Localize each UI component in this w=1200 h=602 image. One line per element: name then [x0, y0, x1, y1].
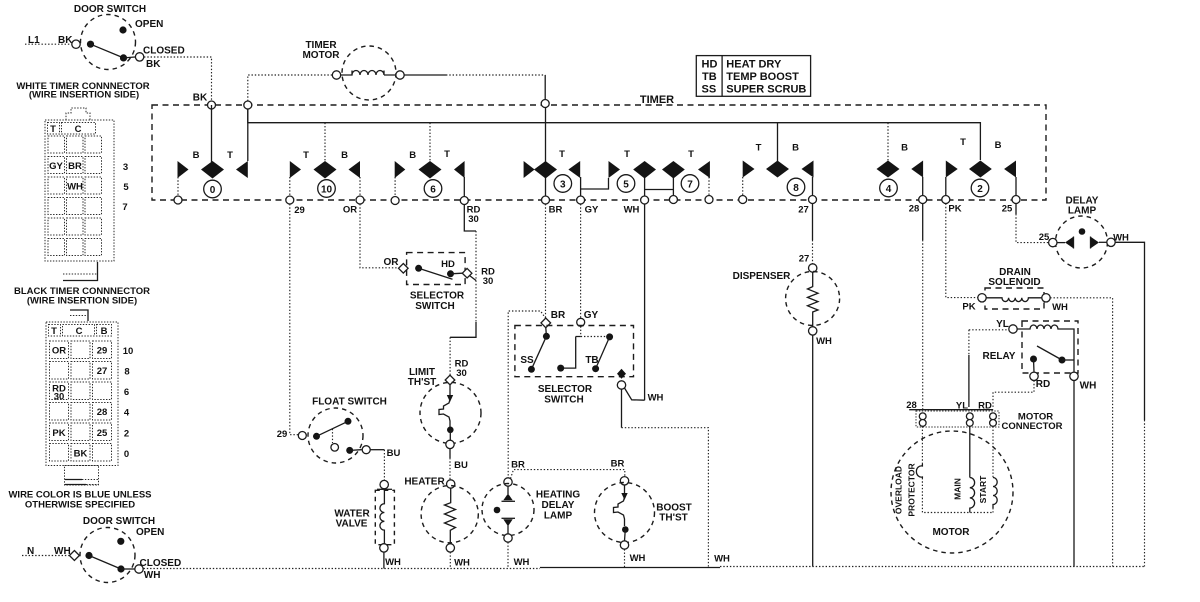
wire blade to terminal	[121, 568, 135, 570]
wire 28 from timer	[922, 204, 924, 241]
svg-text:SS: SS	[702, 84, 717, 96]
terminal GY	[577, 196, 585, 204]
terminal top	[809, 264, 817, 272]
svg-text:10: 10	[123, 346, 134, 357]
relay blade	[1037, 346, 1062, 360]
cam 8 wires	[777, 123, 779, 161]
svg-text:HD: HD	[441, 259, 455, 270]
svg-text:MOTOR: MOTOR	[302, 50, 340, 61]
cam 0 left triangle	[178, 161, 189, 178]
svg-text:SELECTOR: SELECTOR	[410, 291, 465, 302]
svg-text:3: 3	[123, 162, 128, 173]
upper contact dot	[345, 418, 352, 425]
cam 4 circle	[880, 179, 898, 197]
thermostat element	[449, 385, 451, 396]
svg-text:B: B	[995, 140, 1002, 151]
svg-text:MAIN: MAIN	[953, 478, 963, 500]
node timer motor feed	[541, 100, 549, 108]
terminal cam7 right	[705, 196, 713, 204]
wire RD to motor connector	[993, 381, 1034, 408]
header cell C	[62, 123, 96, 135]
closed contact dot	[120, 54, 127, 61]
svg-text:30: 30	[54, 392, 65, 403]
switch blade	[89, 556, 121, 570]
START winding	[993, 478, 997, 509]
svg-text:5: 5	[123, 182, 129, 193]
float switch dashed circle	[308, 408, 363, 463]
TB feed lines	[561, 337, 581, 369]
svg-text:TEMP BOOST: TEMP BOOST	[726, 71, 799, 83]
svg-text:30: 30	[468, 214, 479, 225]
cam 6 wires	[395, 123, 430, 196]
terminal bottom	[504, 534, 512, 542]
wire BR branch to lamp	[508, 311, 546, 478]
terminal 28	[919, 196, 927, 204]
svg-text:B: B	[792, 143, 799, 154]
limit thst dashed circle	[420, 382, 481, 443]
pivot dot	[87, 41, 94, 48]
cam 7 diamond	[662, 161, 685, 179]
lamp left electrode	[1057, 242, 1065, 244]
svg-text:30: 30	[456, 368, 467, 379]
svg-text:BK: BK	[74, 449, 88, 460]
wire WH to bus	[812, 335, 814, 566]
svg-text:LAMP: LAMP	[544, 511, 573, 522]
wire MAIN from pin YL	[969, 426, 971, 477]
svg-text:CLOSED: CLOSED	[143, 46, 185, 57]
svg-text:PROTECTOR: PROTECTOR	[907, 463, 917, 516]
dispenser resistor	[808, 272, 819, 327]
relay dashed box	[1022, 321, 1078, 373]
terminal YL	[1009, 325, 1017, 333]
grid row 6	[48, 239, 65, 256]
svg-text:GY: GY	[49, 161, 63, 172]
svg-text:GY: GY	[584, 310, 599, 321]
cam 0 diamond	[201, 161, 224, 179]
connector outer box	[45, 120, 114, 261]
wire BR to boost	[511, 470, 625, 479]
svg-text:BR: BR	[511, 460, 525, 471]
pin 28	[919, 413, 926, 420]
node top edge right of BK	[244, 101, 252, 109]
cam 5 circle	[617, 175, 635, 193]
svg-text:HEATING: HEATING	[536, 490, 580, 501]
cam 5 left triangle	[609, 161, 621, 178]
svg-text:LAMP: LAMP	[1068, 206, 1097, 217]
svg-text:29: 29	[277, 429, 288, 440]
grid row 4 28	[50, 403, 69, 421]
svg-text:WH: WH	[816, 336, 832, 347]
svg-text:WH: WH	[1080, 381, 1097, 392]
svg-text:BU: BU	[387, 448, 401, 459]
svg-text:B: B	[901, 143, 908, 154]
grid row 3 WH	[48, 177, 65, 194]
terminal right	[1107, 238, 1115, 246]
svg-text:WH: WH	[454, 558, 470, 569]
terminal OR diamond	[399, 264, 409, 274]
terminal diamond	[445, 375, 455, 385]
svg-text:WH: WH	[648, 393, 664, 404]
svg-text:HEAT DRY: HEAT DRY	[726, 59, 782, 71]
svg-text:SELECTOR: SELECTOR	[538, 384, 593, 395]
connector bottom tab	[63, 262, 98, 281]
svg-text:8: 8	[124, 367, 129, 378]
svg-text:29: 29	[97, 346, 108, 357]
wire timer WH down	[644, 204, 646, 400]
connector bottom tab	[65, 466, 99, 486]
svg-text:T: T	[227, 150, 233, 161]
svg-text:T: T	[51, 326, 57, 337]
lamp dot	[494, 507, 501, 514]
svg-text:TH'ST: TH'ST	[408, 377, 437, 388]
svg-text:30: 30	[483, 276, 494, 287]
pivot dot	[85, 552, 92, 559]
wire 27 from timer	[812, 204, 814, 241]
pivot dot	[313, 433, 320, 440]
wire RD30 from timer	[464, 205, 476, 232]
cam 6 circle	[424, 180, 442, 198]
cam 3 circle	[554, 175, 572, 193]
svg-text:2: 2	[124, 429, 129, 440]
grid row 2 27	[50, 362, 69, 380]
svg-text:PK: PK	[962, 302, 975, 313]
svg-text:DOOR SWITCH: DOOR SWITCH	[74, 4, 146, 15]
svg-text:8: 8	[793, 183, 799, 194]
svg-text:T: T	[444, 149, 450, 160]
svg-text:TB: TB	[702, 71, 717, 83]
svg-text:B: B	[409, 150, 416, 161]
terminal top	[504, 478, 512, 486]
svg-text:DELAY: DELAY	[542, 500, 575, 511]
wire BK to timer	[144, 57, 212, 101]
heater dashed circle	[421, 486, 478, 543]
svg-text:7: 7	[687, 180, 693, 191]
wire to RD30 line	[470, 276, 477, 281]
terminal left	[978, 294, 986, 302]
cam 2 left triangle	[946, 161, 958, 178]
svg-text:0: 0	[124, 449, 129, 460]
svg-text:T: T	[960, 137, 966, 148]
svg-text:OTHERWISE SPECIFIED: OTHERWISE SPECIFIED	[25, 500, 135, 511]
terminal 25	[1012, 196, 1020, 204]
water valve coil	[380, 489, 385, 544]
grid row 1	[48, 136, 65, 153]
wire WH to right drop	[1050, 298, 1112, 567]
svg-text:WH: WH	[1052, 302, 1068, 313]
connector top tab	[70, 310, 88, 321]
terminal left	[1049, 238, 1057, 246]
terminal cam7	[669, 196, 677, 204]
terminal closed	[135, 565, 143, 573]
cam 4 wires	[887, 123, 889, 161]
wire motor to timer node	[404, 74, 446, 76]
SS blade	[531, 336, 546, 369]
svg-text:BR: BR	[611, 459, 625, 470]
terminal cam0 left	[174, 196, 182, 204]
svg-text:7: 7	[122, 202, 127, 213]
terminal top	[447, 480, 455, 488]
terminal RD30	[460, 197, 468, 205]
cam 2 wires	[946, 177, 1016, 196]
connector outer box	[46, 322, 118, 466]
heater resistor	[445, 488, 456, 544]
lamp dot	[1079, 228, 1086, 235]
TB center contact dot	[557, 365, 564, 372]
svg-text:RELAY: RELAY	[983, 351, 1016, 362]
terminal cam8 left	[739, 196, 747, 204]
svg-text:VALVE: VALVE	[336, 519, 368, 530]
svg-text:10: 10	[321, 185, 333, 196]
svg-text:HEATER: HEATER	[404, 477, 445, 488]
svg-text:PK: PK	[52, 428, 65, 439]
wire contact to terminal	[350, 449, 362, 452]
svg-text:0: 0	[210, 185, 216, 196]
terminal bottom	[446, 544, 454, 552]
svg-text:2: 2	[977, 184, 983, 195]
svg-text:MOTOR: MOTOR	[932, 527, 970, 538]
solenoid coil	[986, 298, 1042, 302]
tick	[377, 488, 392, 490]
svg-text:28: 28	[97, 407, 108, 418]
wire RD30 to limit	[450, 322, 476, 337]
svg-text:WH: WH	[144, 570, 161, 581]
wire N input	[22, 555, 69, 557]
wire neutral bottom bus	[144, 568, 541, 570]
cam 10 right triangle	[349, 161, 361, 178]
svg-text:WH: WH	[385, 557, 401, 568]
svg-text:C: C	[75, 124, 82, 135]
svg-text:OVERLOAD: OVERLOAD	[894, 466, 904, 514]
cam 10 left triangle	[290, 161, 301, 178]
timer inner bus	[248, 105, 981, 160]
cam 10 diamond	[314, 161, 337, 179]
svg-text:OPEN: OPEN	[135, 19, 163, 30]
svg-text:OR: OR	[343, 205, 357, 216]
wire WH loop to bus	[621, 389, 623, 428]
terminal 29	[286, 196, 294, 204]
wire WH to bus	[449, 552, 451, 567]
svg-text:WH: WH	[714, 554, 730, 565]
timer dashed box	[152, 105, 1046, 200]
wire OR from timer	[360, 204, 399, 268]
grid row 4	[48, 198, 65, 215]
drain solenoid dashed box	[985, 288, 1044, 309]
svg-text:TIMER: TIMER	[640, 94, 674, 106]
wire WH to bus	[624, 549, 626, 567]
cam 2 diamond	[969, 161, 992, 178]
TB blade	[596, 337, 610, 369]
terminal left	[298, 432, 306, 440]
svg-text:28: 28	[909, 204, 920, 215]
wire contact to terminal	[451, 272, 463, 275]
svg-text:T: T	[756, 143, 762, 154]
terminal bottom	[809, 327, 817, 335]
terminal WH	[1070, 372, 1078, 380]
timer motor dashed circle	[342, 46, 396, 100]
svg-text:C: C	[76, 326, 83, 337]
svg-text:B: B	[193, 150, 200, 161]
wire BR from timer	[545, 204, 547, 318]
cam 6 left triangle	[395, 161, 406, 178]
svg-text:WH: WH	[630, 553, 646, 564]
svg-text:BR: BR	[551, 310, 566, 321]
delay lamp dashed circle	[1056, 216, 1108, 268]
cam 10 circle	[318, 180, 336, 198]
pin YL	[966, 413, 973, 420]
header cell C	[63, 325, 95, 337]
closed contact dot	[117, 565, 124, 572]
svg-text:OR: OR	[384, 257, 400, 268]
svg-text:SWITCH: SWITCH	[544, 395, 583, 406]
cam 4 right triangle	[911, 161, 923, 178]
TB contact dot	[592, 365, 599, 372]
wire WH to bus	[507, 542, 509, 568]
cam 5 diamond	[633, 161, 656, 179]
float linkage	[332, 429, 334, 443]
terminal BR	[542, 196, 550, 204]
header cell B	[97, 325, 112, 337]
svg-text:BR: BR	[549, 205, 563, 216]
lower contact dot	[346, 447, 353, 454]
relay contact dot	[1030, 356, 1037, 363]
svg-text:5: 5	[623, 180, 629, 191]
door switch S1 dashed circle	[81, 15, 136, 70]
legend box	[696, 56, 810, 97]
svg-text:TH'ST: TH'ST	[659, 513, 688, 524]
lamp bottom electrode	[502, 517, 516, 519]
terminal BR diamond	[541, 318, 551, 328]
cam 6 right triangle	[454, 161, 465, 178]
grid row 3 RD30	[50, 382, 69, 400]
lamp top electrode	[507, 486, 509, 494]
svg-text:DOOR SWITCH: DOOR SWITCH	[83, 516, 155, 527]
connector top bar	[909, 409, 993, 411]
terminal WH	[641, 196, 649, 204]
cam 7 circle	[681, 175, 699, 193]
svg-text:(WIRE INSERTION SIDE): (WIRE INSERTION SIDE)	[29, 90, 139, 101]
svg-text:29: 29	[294, 205, 305, 216]
wire WH to bus	[383, 552, 385, 568]
svg-text:BK: BK	[146, 59, 161, 70]
cam 2 right triangle	[1004, 161, 1016, 178]
svg-text:27: 27	[798, 205, 809, 216]
svg-text:25: 25	[1002, 204, 1013, 215]
svg-text:27: 27	[799, 254, 810, 265]
motor connector dotted box	[916, 411, 999, 427]
wire WH down right side	[1115, 242, 1144, 420]
cam 8 right triangle	[802, 161, 814, 178]
output dot diamond	[617, 369, 626, 379]
svg-text:GY: GY	[585, 205, 599, 216]
wire BU to heater	[449, 449, 451, 458]
cam 4 diamond	[877, 161, 900, 178]
relay coil	[1017, 325, 1074, 372]
svg-text:(WIRE INSERTION SIDE): (WIRE INSERTION SIDE)	[27, 296, 137, 307]
terminal OR	[356, 196, 364, 204]
terminal diamond	[69, 551, 79, 561]
grid row 5 PK 25	[50, 423, 69, 441]
header cell T	[49, 325, 61, 337]
grid row 5	[48, 218, 65, 235]
cam 3 diamond	[534, 161, 557, 179]
svg-text:BU: BU	[454, 460, 468, 471]
svg-text:WH: WH	[67, 182, 83, 193]
wire PK from timer	[946, 204, 978, 298]
grid row 1 OR 29	[50, 341, 69, 359]
switch blade	[419, 268, 453, 279]
cam 10 wires	[290, 123, 360, 196]
svg-text:6: 6	[430, 185, 436, 196]
wire 29 from timer	[290, 204, 298, 435]
wire WH output joins timer WH	[625, 388, 645, 400]
svg-text:27: 27	[97, 366, 108, 377]
cam 2 circle	[971, 179, 989, 197]
dispenser dashed circle	[786, 272, 840, 326]
terminal right	[1042, 294, 1050, 302]
svg-text:BR: BR	[68, 161, 82, 172]
svg-text:25: 25	[97, 428, 108, 439]
terminal right	[396, 71, 404, 79]
lamp right electrode	[1090, 237, 1092, 249]
wire START from pin RD	[992, 426, 994, 477]
svg-text:T: T	[303, 150, 309, 161]
svg-text:SS: SS	[520, 355, 534, 366]
node BK on top edge	[208, 101, 216, 109]
cam 0 right triangle	[236, 161, 248, 178]
grid row 2 GY BR	[48, 157, 65, 174]
svg-text:DISPENSER: DISPENSER	[733, 271, 792, 282]
svg-text:WH: WH	[514, 557, 530, 568]
svg-text:CLOSED: CLOSED	[140, 558, 182, 569]
switch blade	[91, 44, 124, 58]
output terminal	[617, 381, 625, 389]
terminal PK	[942, 196, 950, 204]
cam 8 left triangle	[743, 161, 755, 178]
lamp dashed circle	[482, 484, 534, 536]
terminal RD30 diamond	[462, 268, 472, 278]
svg-text:6: 6	[124, 387, 129, 398]
terminal cam6 left	[391, 197, 399, 205]
terminal left	[332, 71, 340, 79]
wire overload from pin 28	[921, 426, 923, 464]
svg-text:SWITCH: SWITCH	[415, 301, 454, 312]
terminal bottom	[380, 544, 388, 552]
svg-text:SUPER SCRUB: SUPER SCRUB	[726, 84, 806, 96]
terminal top	[380, 480, 388, 488]
timer motor coil	[341, 71, 396, 76]
svg-text:RD: RD	[1036, 379, 1050, 390]
pin RD	[990, 413, 997, 420]
wire L1 input	[25, 43, 71, 45]
cam 3 right triangle	[568, 161, 580, 178]
terminal GY	[577, 318, 585, 326]
cam 7 right triangle	[698, 161, 710, 178]
SS contact dot	[528, 366, 535, 373]
wire YL from motor connector	[968, 330, 970, 355]
grid row 6 BK	[50, 444, 69, 462]
svg-text:3: 3	[560, 180, 566, 191]
wire GY from timer	[580, 204, 582, 319]
selector switch dashed box	[515, 326, 634, 377]
svg-text:B: B	[341, 150, 348, 161]
svg-text:T: T	[624, 149, 630, 160]
switch blade	[317, 421, 349, 436]
wire blade to terminal	[124, 56, 136, 59]
SS pivot dot	[543, 333, 550, 340]
water valve dashed box	[375, 490, 394, 544]
terminal closed	[135, 53, 143, 61]
cam 6 diamond	[419, 161, 442, 179]
